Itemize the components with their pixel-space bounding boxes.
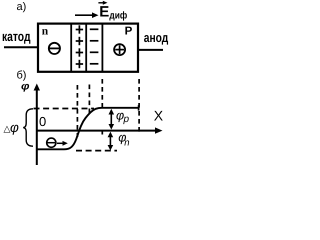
dashed vertical line 3 (right depletion edge): [101, 79, 103, 109]
dashed vertical line 1 (left depletion edge): [76, 85, 78, 137]
svg-text:0: 0: [39, 114, 46, 129]
plus ions column: [76, 25, 83, 68]
dashed vertical line 4 (body right edge): [138, 79, 140, 135]
arrow phi_p (double headed): [110, 112, 112, 128]
svg-text:а): а): [17, 1, 27, 13]
dashed horizontal top (phi_p level to axis): [34, 108, 95, 110]
svg-text:φ: φ: [10, 120, 19, 135]
circled minus (electron carrier) in n region: [49, 43, 60, 54]
svg-text:анод: анод: [144, 30, 169, 45]
wire anode lead: [138, 49, 163, 51]
tick at right end of upper level: [138, 105, 140, 110]
svg-text:X: X: [154, 107, 164, 123]
dashed horizontal bottom (phi_n level): [76, 150, 117, 152]
arrow E_dif: [75, 14, 95, 16]
svg-text:диф: диф: [109, 10, 127, 21]
svg-text:n: n: [42, 26, 49, 38]
wire cathode lead: [4, 46, 38, 48]
dashed vertical line 2 (junction mid): [88, 85, 90, 116]
svg-text:n: n: [124, 137, 129, 148]
divider -|p: [101, 23, 103, 71]
circled plus (hole carrier) in P region: [114, 44, 125, 55]
phi axis: [36, 86, 38, 165]
svg-text:φ: φ: [21, 81, 30, 93]
circled minus with arrow (electron moving right): [47, 138, 56, 147]
minus ions column: [90, 29, 99, 64]
brace delta-phi: [23, 109, 33, 146]
arrow phi_n (double headed): [109, 134, 111, 148]
svg-text:P: P: [125, 26, 133, 38]
svg-text:Е: Е: [99, 4, 109, 21]
svg-text:катод: катод: [2, 29, 31, 44]
divider +|-: [85, 23, 87, 71]
svg-text:p: p: [123, 114, 130, 125]
diode body box: [38, 24, 138, 72]
potential curve phi(x): [37, 108, 139, 150]
X axis: [37, 130, 159, 132]
divider n|+: [70, 23, 72, 71]
